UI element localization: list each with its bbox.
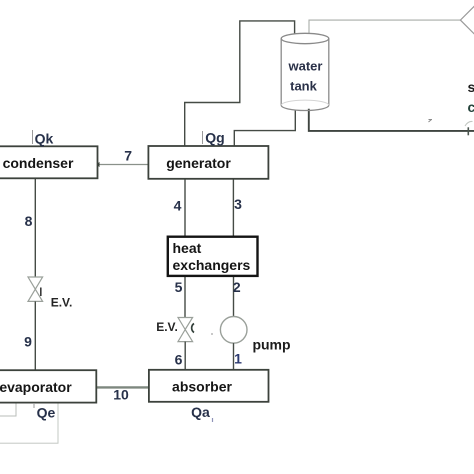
vapor line generator to water tank top	[185, 21, 295, 146]
Qe heat label	[33, 404, 35, 408]
svg-text:7: 7	[124, 148, 132, 164]
wire 6 E.V. to absorber	[184, 342, 186, 370]
generator box	[148, 146, 268, 179]
svg-text:E.V.: E.V.	[156, 320, 178, 334]
faint curl above arrow tick	[465, 121, 473, 126]
wire 9 E.V. to evaporator	[34, 301, 36, 370]
heat exchangers box	[168, 237, 258, 276]
svg-text:9: 9	[24, 334, 32, 350]
svg-text:evaporator: evaporator	[0, 379, 72, 395]
junction nub on condenser right edge	[97, 162, 100, 167]
Qg heat label	[202, 131, 204, 144]
return line water tank bottom to generator	[234, 110, 295, 147]
svg-text:10: 10	[113, 387, 129, 403]
water tank outlet line top right	[309, 20, 460, 34]
expansion valve E.V. middle	[178, 318, 193, 342]
svg-text:pump: pump	[252, 337, 290, 353]
faint cut-off box large below evaporator	[0, 403, 58, 444]
svg-text:Qg: Qg	[205, 130, 224, 146]
absorber box	[149, 370, 269, 402]
wire 7 condenser to generator	[98, 164, 149, 166]
svg-text:exchangers: exchangers	[173, 257, 251, 273]
svg-text:E.V.: E.V.	[51, 296, 73, 310]
pump circle P	[220, 317, 247, 344]
arrow cross tick right	[467, 127, 469, 135]
wire 3 generator to heat exchangers	[232, 179, 234, 237]
svg-text:3: 3	[234, 196, 242, 212]
Qk heat label	[32, 130, 34, 144]
water tank cylinder	[281, 33, 329, 110]
svg-text:5: 5	[175, 279, 183, 295]
wire 2 heat exchangers to pump	[233, 276, 235, 317]
svg-text:Qa: Qa	[191, 404, 210, 420]
condensate line water tank bottom to right arrow	[309, 109, 474, 131]
condenser box	[0, 146, 98, 178]
wire 8 condenser to E.V.	[34, 178, 36, 277]
svg-text:8: 8	[25, 213, 33, 229]
valve stem tick left E.V.	[40, 288, 42, 297]
svg-text:condenser: condenser	[3, 155, 74, 171]
svg-text:Qe: Qe	[37, 405, 56, 421]
artifact dot left of pump	[211, 333, 213, 335]
wire 5 heat exchangers to E.V.	[184, 276, 186, 318]
valve stem curl middle E.V.	[192, 324, 194, 333]
svg-text:c: c	[468, 99, 474, 115]
svg-text:heat: heat	[173, 240, 202, 256]
svg-text:tank: tank	[290, 79, 318, 94]
wire 1 pump to absorber	[233, 343, 235, 370]
svg-text:generator: generator	[166, 155, 231, 171]
svg-text:Qk: Qk	[35, 131, 54, 147]
open diamond at right edge	[460, 6, 474, 34]
svg-text:6: 6	[175, 352, 183, 368]
wire 10 evaporator to absorber	[96, 386, 149, 388]
evaporator box	[0, 370, 96, 402]
svg-text:1: 1	[234, 351, 242, 367]
expansion valve E.V. left	[28, 277, 43, 301]
svg-text:water: water	[288, 59, 323, 74]
faint cut-off box small below evaporator	[0, 403, 16, 416]
svg-text:4: 4	[174, 198, 182, 214]
svg-text:s: s	[468, 79, 474, 95]
svg-text:absorber: absorber	[172, 379, 232, 395]
small artifact mark on condensate line	[429, 120, 433, 123]
wire 4 generator to heat exchangers	[184, 179, 186, 237]
tick after Qa	[212, 418, 214, 422]
svg-text:2: 2	[233, 279, 241, 295]
